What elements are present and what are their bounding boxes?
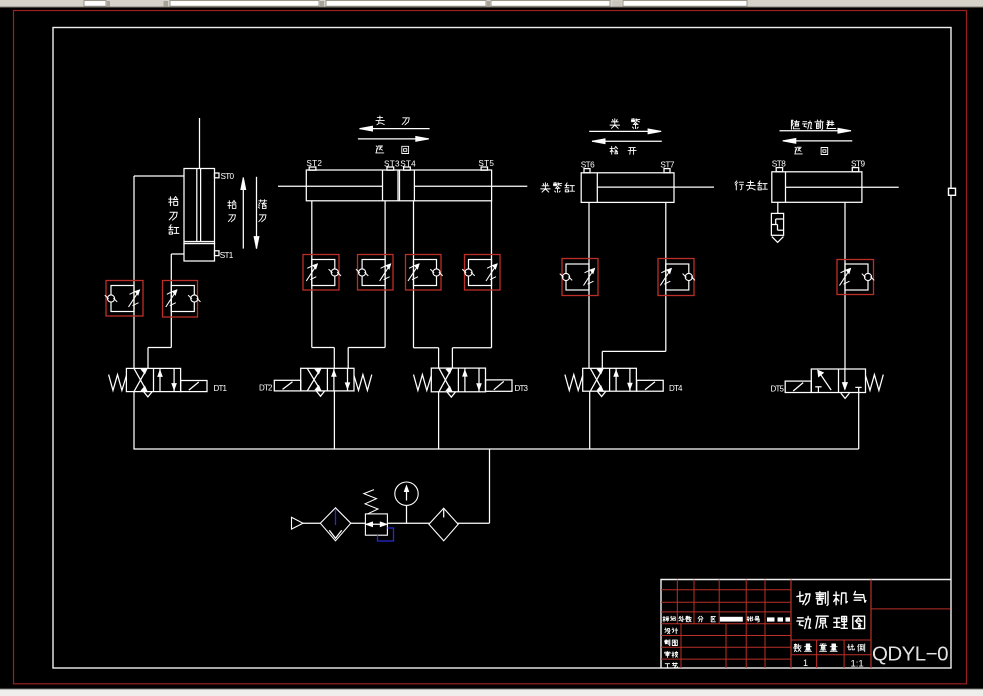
piston rod of 行走缸: [786, 186, 899, 188]
piston rod of 抬刀缸: [197, 118, 201, 242]
wire: 抬刀缸 lower port to valve DT1: [148, 254, 184, 368]
drawing title 切割机气动原理图: [797, 591, 866, 628]
air supply line: [303, 522, 490, 524]
label 行走缸: [735, 181, 767, 190]
limit switch ST8: [772, 159, 786, 171]
flow control valve under 抬刀缸 upper line: [105, 281, 143, 317]
solenoid valve DT4: [565, 368, 683, 396]
wire: 夹紧缸 port2 to DT4: [602, 202, 666, 368]
arrow 抬刀 up: [228, 178, 246, 249]
flow control valve 走刀 line 4: [462, 255, 500, 291]
revision bar: [720, 617, 743, 622]
svg-text:DT1: DT1: [214, 384, 228, 393]
row label 审校: [665, 652, 678, 658]
wire: 走刀 port2 to DT2: [348, 201, 385, 368]
solenoid valve DT2: [259, 368, 372, 396]
solenoid valve DT5: [771, 369, 884, 398]
row label 制图: [665, 640, 678, 646]
cylinder 抬刀缸 body: [184, 169, 215, 262]
limit switch ST9: [851, 159, 865, 171]
svg-text:DT5: DT5: [771, 385, 785, 394]
arrow 夹紧 right: [589, 119, 661, 134]
wire: DT5 to supply bus: [858, 393, 860, 450]
svg-text:ST8: ST8: [772, 159, 786, 168]
air source triangle: [292, 517, 304, 529]
svg-text:ST6: ST6: [581, 160, 595, 169]
title block border: [661, 580, 951, 669]
wire: 走刀 port4 to DT3: [452, 201, 491, 368]
supply bus wire: [134, 448, 859, 450]
svg-text:DT2: DT2: [259, 384, 273, 393]
toolbar strip top: [0, 0, 983, 8]
limit switch ST2: [306, 159, 322, 170]
title block red grid: [661, 580, 951, 669]
limit switch ST4: [400, 160, 416, 171]
cylinder 走刀 body: [306, 170, 491, 201]
wire: 行走缸 port to DT5: [844, 202, 846, 369]
flow control valve 夹紧缸 line 2: [658, 259, 695, 296]
flow control valve 走刀 line 1: [303, 255, 341, 291]
limit switch ST0: [215, 172, 235, 181]
row label 设计: [665, 628, 678, 634]
arrow 随动前进 right: [780, 120, 852, 133]
cylinder 夹紧缸 body: [581, 173, 674, 203]
wire: 走刀 port3 to DT3: [414, 201, 439, 368]
wire: 夹紧缸 port1 to DT4: [588, 202, 590, 368]
arrow 落刀 down: [254, 177, 267, 249]
lubricator: [429, 508, 458, 541]
svg-text:DT3: DT3: [515, 384, 529, 393]
muffler under ST8 port: [771, 202, 783, 242]
svg-text:ST4: ST4: [400, 160, 416, 169]
table header 标记 处数 分区 批号: [663, 616, 760, 622]
limit switch ST5: [478, 159, 494, 170]
wire: 走刀 port1 to DT2: [312, 201, 335, 368]
arrow 走刀 left: [360, 116, 430, 131]
status strip bottom: [0, 689, 983, 696]
filter with water separator: [320, 508, 351, 541]
svg-text:ST2: ST2: [306, 159, 322, 168]
pressure regulator: [364, 490, 394, 541]
limit switch ST7: [660, 160, 674, 172]
arrow 返回 left: [783, 139, 853, 155]
svg-text:DT4: DT4: [669, 384, 683, 393]
svg-text:ST0: ST0: [221, 172, 235, 181]
arrow 松开 left: [592, 139, 662, 155]
piston rod left of 走刀 cylinder: [278, 185, 383, 187]
cylinder 行走缸 body: [772, 172, 862, 203]
svg-text:ST3: ST3: [384, 160, 400, 169]
limit switch ST6: [581, 160, 595, 172]
wire: 抬刀缸 upper port to valve DT1: [134, 176, 184, 368]
flow control valve 行走缸 line: [837, 260, 874, 295]
wire: bus riser to air service unit: [489, 449, 491, 523]
pressure gauge: [395, 482, 418, 523]
flow control valve 走刀 line 3: [406, 255, 443, 291]
svg-text:ST1: ST1: [220, 251, 234, 260]
arrow 返回 right: [358, 137, 429, 154]
label 夹紧缸: [541, 182, 575, 192]
flow control valve 走刀 line 2: [356, 255, 393, 291]
svg-text:ST5: ST5: [478, 159, 494, 168]
wire: DT4 to supply bus: [589, 391, 591, 449]
flow control valve 夹紧缸 line 1: [560, 259, 598, 296]
solenoid valve DT1: [109, 368, 228, 397]
wire: DT1 to supply bus: [133, 392, 135, 450]
solenoid valve DT3: [414, 368, 529, 397]
label 抬刀缸: [169, 197, 179, 235]
limit switch ST1: [215, 251, 234, 260]
wire: DT3 to supply bus: [438, 392, 440, 449]
wire: DT2 to supply bus: [333, 391, 335, 449]
revision dashes: [767, 617, 790, 621]
grip point on right border: [949, 188, 956, 195]
limit switch ST3: [384, 160, 400, 171]
piston rod right of 走刀 cylinder: [414, 185, 527, 187]
svg-text:1: 1: [803, 658, 808, 668]
piston rod of 夹紧缸: [597, 186, 714, 188]
svg-text:ST9: ST9: [851, 159, 865, 168]
row label 工艺: [665, 663, 678, 668]
svg-text:1:1: 1:1: [851, 659, 864, 670]
headers 数量 重量 比例: [794, 644, 865, 652]
svg-text:ST7: ST7: [660, 160, 674, 169]
flow control valve under 抬刀缸 lower line: [163, 281, 201, 318]
svg-text:QDYL−0: QDYL−0: [872, 643, 949, 666]
